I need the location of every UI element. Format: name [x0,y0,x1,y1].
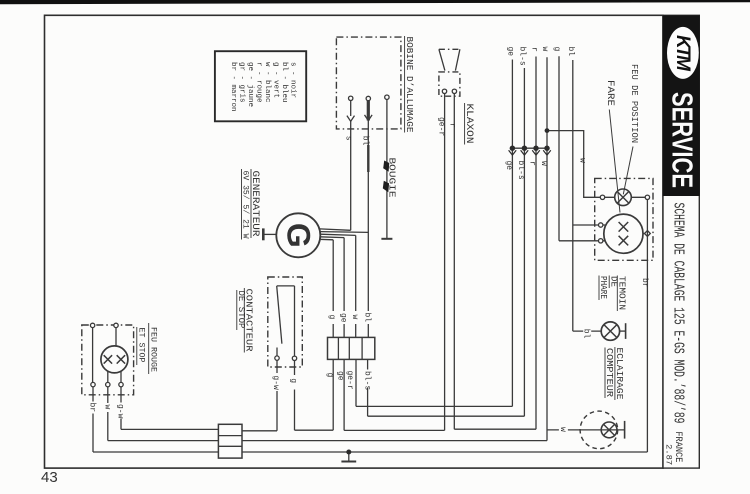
headlight housing box [595,178,653,260]
svg-text:FARE: FARE [604,80,615,106]
junction dot r [533,146,538,151]
bundle wire g [558,56,560,241]
wire color legend box [215,51,306,121]
svg-text:ge-r: ge-r [345,371,354,390]
svg-text:w: w [540,47,549,52]
switch blade [277,286,282,344]
wire bl arm to temoin lamp [573,330,602,332]
scan top edge black bar [0,0,750,4]
svg-text:r: r [528,161,537,166]
ignition coil box (bobine) [336,37,401,129]
tail light terminal g-w [119,382,123,386]
3-cell divider 1 [218,435,242,437]
junction plug chevron ge [509,150,517,155]
4-cell divider 2 [348,337,350,359]
underline PHARE [598,276,600,301]
svg-text:bl - bleu: bl - bleu [280,62,288,103]
underline 6V [241,169,243,240]
svg-text:DE: DE [608,276,618,287]
wire w tail down [107,387,109,403]
3-cell connector body [218,424,242,458]
svg-text:ge - jaune: ge - jaune [246,62,254,107]
wire ge-r to top bundle ge [356,405,512,407]
pin ge below connector [343,359,345,430]
svg-text:bl: bl [361,136,370,146]
switch frame right [294,286,296,356]
main diagram border [45,15,664,468]
wire ge pin to connector [343,238,345,311]
underline DE STOP [236,290,238,330]
generator G body [276,213,320,257]
wire w pin to connector [355,235,357,311]
generator ground bar [262,228,265,240]
headlamp terminal bl [599,223,603,227]
svg-text:BOUGIE: BOUGIE [387,158,397,198]
svg-text:ge: ge [336,371,345,381]
svg-text:2.87: 2.87 [663,444,673,465]
4-cell divider 3 [361,337,363,359]
wire g contacteur to 4cell pin g [295,429,334,431]
tail lamp bulb [101,346,128,373]
svg-text:r: r [529,47,538,52]
svg-text:ET STOP: ET STOP [136,328,146,363]
contacteur terminal g [292,356,296,360]
bobine terminal 1 [349,96,353,100]
ground lead [348,452,350,462]
bundle wire ge [511,60,513,407]
svg-text:g: g [289,378,298,383]
wire s bobine to generator [350,121,352,230]
speedo lamp cross [604,424,615,435]
generator fan wire to bl [320,231,368,234]
wire br tail down [92,387,94,402]
tail lamp cross 2 [117,355,125,363]
4-cell connector body [328,337,375,359]
pin g below connector [332,359,334,430]
svg-text:gr - gris: gr - gris [237,62,245,103]
speedo lamp bulb [601,422,617,438]
temoin lamp bulb [601,322,619,340]
title column frame [663,15,699,468]
svg-text:s: s [344,136,353,141]
svg-text:bl-s: bl-s [516,161,525,180]
svg-text:w - blanc: w - blanc [263,62,271,103]
tail light top terminal 1 [90,323,94,327]
klaxon body box [439,72,460,96]
bougie ground bar [381,238,392,240]
position lamp cross [617,192,629,204]
svg-text:g-w: g-w [116,404,125,419]
junction plug chevron bl-s [521,150,529,155]
svg-text:FEU DE POSITION: FEU DE POSITION [629,64,639,143]
bundle wire r [535,57,537,430]
pin ge-r below connector [355,359,357,406]
tail lamp cross 1 [104,355,112,363]
wire bl thick lead below box [367,145,369,172]
headlamp right terminal diamond [645,231,651,237]
svg-text:bl: bl [363,313,372,323]
svg-text:g - vert: g - vert [271,62,279,98]
wire s stub in coil [350,101,352,117]
svg-text:bl: bl [566,47,575,57]
svg-text:BOBINE D’ALLUMAGE: BOBINE D’ALLUMAGE [404,37,415,133]
svg-text:bl-s: bl-s [518,47,527,66]
position lamp right terminal [645,195,649,199]
wire g-w contacteur down [276,360,278,373]
bundle wire bl-s [523,68,525,416]
temoin lamp terminal bar [625,323,627,339]
tail lamp stub w [107,371,109,382]
position lamp right arm [631,196,647,198]
svg-text:br - marron: br - marron [229,62,237,112]
junction plug chevron w [543,150,551,155]
svg-text:SERVICE: SERVICE [666,92,698,188]
svg-text:r: r [448,123,457,128]
ground bar [341,461,356,463]
bougie connector mark lower [383,181,389,192]
tail light internal wire top [115,328,117,346]
bundle wire bl [572,60,574,331]
generator fan wire to ge pin [320,236,344,239]
underline BOBINE [404,36,406,133]
junction dot w branch [545,128,550,133]
wire bl bobine to connector pin [367,121,369,311]
svg-text:w: w [539,161,548,166]
position lamp left terminal [600,195,604,199]
svg-text:g: g [325,373,334,378]
junction dot w [544,146,549,151]
brake switch box (contacteur de stop) [268,277,303,367]
svg-text:COMPTEUR: COMPTEUR [604,348,615,397]
wire ge-r klaxon down [444,94,446,431]
junction plug chevron r [532,150,540,155]
wire g-w tail down [120,387,122,403]
svg-text:w: w [350,315,359,320]
svg-text:ge: ge [504,161,513,171]
svg-text:s - noir: s - noir [288,62,296,98]
4-cell divider 1 [337,337,339,359]
wire g-w contacteur to 3cell connector [242,430,277,432]
svg-text:w: w [558,427,567,432]
tail lamp stub g-w [120,371,122,382]
headlamp cross high [619,222,629,232]
svg-text:KTM: KTM [672,35,693,72]
underline TEMOIN [616,276,618,312]
bus g-w tail to 3cell [121,428,218,430]
3-cell divider 2 [218,445,242,447]
wire w branch to position lamp [547,131,615,198]
underline FEU ROUGE [148,323,150,374]
wire r klaxon to top bundle r [454,428,536,430]
underline ECLAIRAGE [614,347,616,400]
bundle junction bar [510,147,550,149]
svg-text:PHARE: PHARE [598,276,608,299]
svg-text:w: w [577,158,586,163]
svg-text:g-w: g-w [271,375,280,390]
wire g contacteur down [294,361,296,376]
bobine terminal 2 [366,96,370,100]
wire bl plug chevron [365,115,373,121]
KTM SERVICE banner [663,15,700,196]
svg-text:G: G [280,223,316,248]
svg-text:ge-r: ge-r [437,117,446,136]
svg-text:w: w [102,405,111,410]
tail light box (feu rouge et stop) [82,325,134,395]
speedo lamp dashed ring [580,411,618,449]
KTM logo oval [667,27,699,79]
headlamp right arm [643,233,645,235]
pointer line FARE [609,110,620,213]
temoin lamp right arm [620,330,626,332]
ground junction dot [346,450,351,455]
wire bl-s to top bundle bl-s [368,415,525,417]
svg-text:g: g [327,315,336,320]
svg-text:43: 43 [41,469,58,486]
speedo lamp terminal bar [624,421,626,439]
wire ge to klaxon ge-r [344,429,445,431]
tail light internal wire left [92,328,94,383]
headlamp bulb [604,214,643,253]
junction dot ge [510,146,515,151]
svg-text:bl-s: bl-s [362,371,371,390]
wire g pin to connector [332,240,334,311]
position lamp bulb [615,189,632,206]
bobine terminal 3 [385,95,389,99]
generator fan wire to s [320,229,351,230]
wire bl arm to high beam [573,224,606,226]
svg-text:SCHEMA DE CABLAGE 125 E-GS MOD: SCHEMA DE CABLAGE 125 E-GS MOD.’88/’89 [670,203,686,424]
tail light terminal br [91,382,95,386]
contacteur terminal g-w [275,356,279,360]
svg-text:br: br [640,278,649,288]
underline CONTACTEUR [243,288,245,353]
svg-text:ge: ge [506,47,515,57]
klaxon horn bell [439,49,460,70]
junction dot bl-s [522,146,527,151]
pointer line FEU DE POSITION [623,147,633,195]
wire s plug chevron [347,116,355,122]
underline COMPTEUR [604,348,606,399]
underline KLAXON [464,103,466,145]
high tension lead to bougie [386,99,388,238]
svg-text:br: br [88,403,97,413]
coil primary winding thick bar [367,101,370,121]
underline DE phare [608,276,610,289]
switch frame top [277,285,295,287]
klaxon terminal r [452,89,456,93]
wire r klaxon down [453,94,455,430]
headlamp cross low [619,236,629,246]
bus br right [242,451,647,453]
switch left pin stub [276,348,278,357]
headlamp terminal g [599,239,603,243]
svg-text:FEU ROUGE: FEU ROUGE [148,327,158,372]
bundle wire w [546,57,548,440]
bougie connector mark upper [383,161,389,172]
generator fan wire to g pin [319,238,333,241]
bus w right [242,440,547,442]
wire br headlamp down right side [646,200,648,453]
bus br left [93,451,218,453]
bus w left [108,440,219,442]
wire g arm to low beam [559,240,605,242]
svg-text:DE STOP: DE STOP [236,291,247,329]
svg-text:g: g [552,47,561,52]
svg-text:r - rouge: r - rouge [254,62,262,103]
generator ground lead [264,233,276,235]
svg-text:ge: ge [338,313,347,323]
klaxon bell top edge [439,48,460,50]
pin bl-s below connector [367,359,369,369]
wire w arm to speedo lamp [547,429,625,431]
tail light terminal w [106,382,110,386]
svg-text:bl: bl [582,329,591,339]
generator fan wire to w pin [320,234,355,235]
temoin lamp cross [604,325,617,338]
tail light top terminal 2 [114,323,118,327]
klaxon terminal ge-r [442,89,446,93]
underline GENERATEUR [250,169,252,238]
underline ET STOP [136,327,138,365]
